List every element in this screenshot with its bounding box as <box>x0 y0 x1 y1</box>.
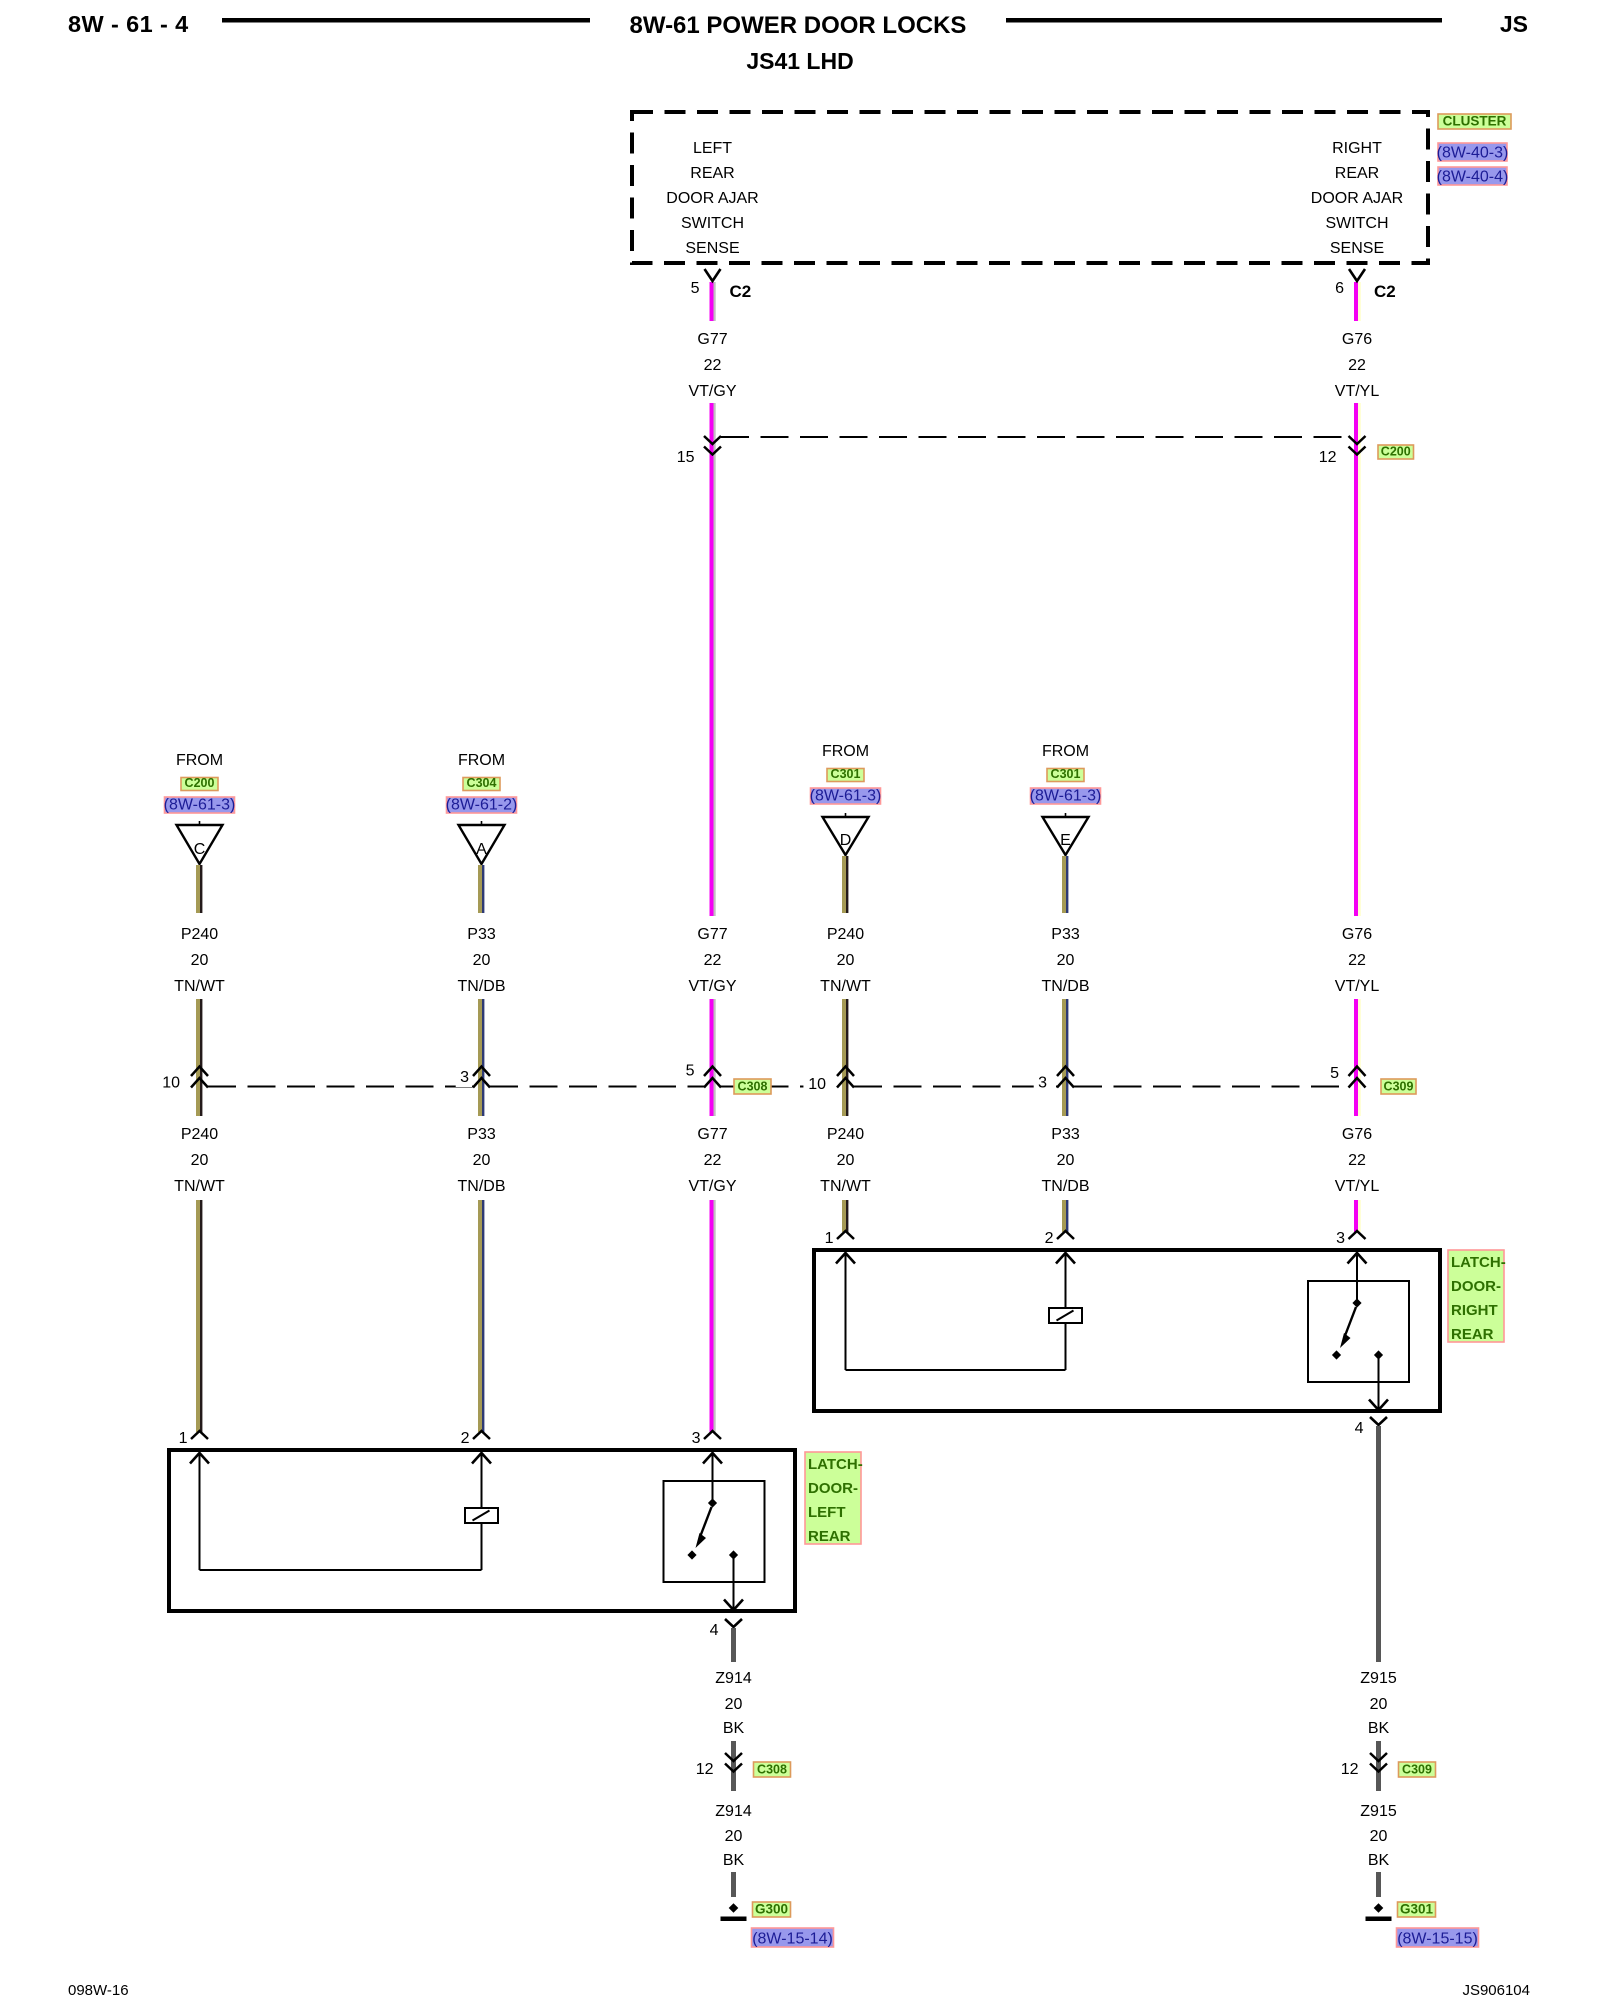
svg-text:C301: C301 <box>831 767 861 781</box>
svg-text:22: 22 <box>704 1152 722 1169</box>
svg-text:G77: G77 <box>697 1126 727 1143</box>
svg-text:VT/YL: VT/YL <box>1335 1178 1380 1195</box>
svg-text:VT/YL: VT/YL <box>1335 383 1380 400</box>
svg-text:P33: P33 <box>467 1126 496 1143</box>
svg-text:P240: P240 <box>181 926 218 943</box>
svg-text:098W-16: 098W-16 <box>68 1982 129 1999</box>
svg-text:P33: P33 <box>467 926 496 943</box>
svg-text:4: 4 <box>1355 1420 1364 1437</box>
svg-text:LEFT: LEFT <box>808 1504 846 1521</box>
svg-text:TN/DB: TN/DB <box>1042 978 1090 995</box>
svg-text:TN/DB: TN/DB <box>458 978 506 995</box>
svg-text:REAR: REAR <box>1335 165 1379 182</box>
svg-text:TN/DB: TN/DB <box>458 1178 506 1195</box>
svg-text:2: 2 <box>461 1430 470 1447</box>
svg-text:VT/GY: VT/GY <box>688 383 736 400</box>
svg-text:(8W-61-3): (8W-61-3) <box>164 797 236 814</box>
svg-text:20: 20 <box>191 1152 209 1169</box>
svg-text:VT/GY: VT/GY <box>688 1178 736 1195</box>
svg-text:BK: BK <box>1368 1720 1390 1737</box>
svg-text:10: 10 <box>162 1075 180 1092</box>
svg-text:JS906104: JS906104 <box>1462 1982 1530 1999</box>
svg-text:FROM: FROM <box>1042 743 1089 760</box>
svg-text:FROM: FROM <box>822 743 869 760</box>
svg-text:22: 22 <box>704 357 722 374</box>
svg-text:C301: C301 <box>1051 767 1081 781</box>
svg-text:TN/WT: TN/WT <box>820 1178 871 1195</box>
svg-text:8W - 61 - 4: 8W - 61 - 4 <box>68 11 189 37</box>
svg-text:C2: C2 <box>730 282 752 301</box>
svg-text:DOOR AJAR: DOOR AJAR <box>666 190 758 207</box>
svg-text:DOOR AJAR: DOOR AJAR <box>1311 190 1403 207</box>
svg-text:VT/GY: VT/GY <box>688 978 736 995</box>
svg-text:1: 1 <box>825 1230 834 1247</box>
svg-text:2: 2 <box>1045 1230 1054 1247</box>
svg-text:20: 20 <box>191 952 209 969</box>
svg-text:JS41 LHD: JS41 LHD <box>746 48 853 74</box>
svg-text:TN/WT: TN/WT <box>820 978 871 995</box>
svg-text:(8W-61-3): (8W-61-3) <box>810 788 882 805</box>
svg-text:Z914: Z914 <box>715 1803 752 1820</box>
svg-text:(8W-40-3): (8W-40-3) <box>1437 145 1509 162</box>
svg-text:20: 20 <box>473 1152 491 1169</box>
svg-text:G300: G300 <box>755 1902 788 1917</box>
svg-text:VT/YL: VT/YL <box>1335 978 1380 995</box>
svg-text:CLUSTER: CLUSTER <box>1443 114 1507 129</box>
svg-text:P240: P240 <box>181 1126 218 1143</box>
svg-text:G76: G76 <box>1342 331 1372 348</box>
svg-text:C200: C200 <box>1381 445 1411 459</box>
svg-text:JS: JS <box>1500 11 1528 37</box>
svg-text:P33: P33 <box>1051 926 1080 943</box>
svg-text:20: 20 <box>1057 952 1075 969</box>
svg-text:(8W-15-14): (8W-15-14) <box>752 1931 833 1948</box>
svg-text:SENSE: SENSE <box>1330 240 1384 257</box>
svg-text:3: 3 <box>460 1069 469 1086</box>
svg-text:22: 22 <box>704 952 722 969</box>
svg-text:12: 12 <box>1319 449 1337 466</box>
svg-text:22: 22 <box>1348 952 1366 969</box>
svg-text:C200: C200 <box>185 776 215 790</box>
svg-text:BK: BK <box>723 1852 745 1869</box>
svg-text:FROM: FROM <box>176 752 223 769</box>
svg-text:RIGHT: RIGHT <box>1451 1302 1498 1319</box>
svg-text:E: E <box>1060 832 1071 849</box>
svg-text:20: 20 <box>837 952 855 969</box>
svg-text:5: 5 <box>1330 1065 1339 1082</box>
svg-text:REAR: REAR <box>690 165 734 182</box>
svg-text:DOOR-: DOOR- <box>1451 1278 1501 1295</box>
svg-text:4: 4 <box>710 1622 719 1639</box>
svg-text:BK: BK <box>1368 1852 1390 1869</box>
svg-text:(8W-40-4): (8W-40-4) <box>1437 169 1509 186</box>
svg-text:10: 10 <box>808 1076 826 1093</box>
svg-text:C309: C309 <box>1402 1763 1432 1777</box>
svg-text:3: 3 <box>1336 1230 1345 1247</box>
svg-text:C308: C308 <box>738 1080 768 1094</box>
svg-text:20: 20 <box>473 952 491 969</box>
svg-text:G76: G76 <box>1342 1126 1372 1143</box>
svg-text:A: A <box>476 841 487 858</box>
svg-text:22: 22 <box>1348 357 1366 374</box>
svg-text:C304: C304 <box>467 776 497 790</box>
svg-text:Z915: Z915 <box>1360 1670 1397 1687</box>
svg-text:P240: P240 <box>827 1126 864 1143</box>
svg-text:(8W-15-15): (8W-15-15) <box>1397 1931 1478 1948</box>
svg-text:12: 12 <box>1341 1761 1359 1778</box>
svg-text:D: D <box>840 832 852 849</box>
svg-text:(8W-61-3): (8W-61-3) <box>1030 788 1102 805</box>
svg-text:TN/WT: TN/WT <box>174 978 225 995</box>
svg-text:3: 3 <box>692 1430 701 1447</box>
svg-text:20: 20 <box>1370 1696 1388 1713</box>
svg-text:G301: G301 <box>1400 1902 1434 1917</box>
svg-text:TN/WT: TN/WT <box>174 1178 225 1195</box>
svg-text:20: 20 <box>1057 1152 1075 1169</box>
svg-text:6: 6 <box>1335 280 1344 297</box>
svg-text:LEFT: LEFT <box>693 140 732 157</box>
svg-text:REAR: REAR <box>1451 1326 1494 1343</box>
svg-text:LATCH-: LATCH- <box>1451 1254 1506 1271</box>
svg-text:DOOR-: DOOR- <box>808 1480 858 1497</box>
svg-text:RIGHT: RIGHT <box>1332 140 1382 157</box>
svg-text:P33: P33 <box>1051 1126 1080 1143</box>
svg-text:SWITCH: SWITCH <box>1325 215 1388 232</box>
svg-text:SWITCH: SWITCH <box>681 215 744 232</box>
svg-text:BK: BK <box>723 1720 745 1737</box>
svg-text:1: 1 <box>179 1430 188 1447</box>
svg-text:REAR: REAR <box>808 1528 851 1545</box>
svg-text:LATCH-: LATCH- <box>808 1456 863 1473</box>
svg-text:22: 22 <box>1348 1152 1366 1169</box>
svg-text:5: 5 <box>686 1063 695 1080</box>
svg-text:12: 12 <box>696 1761 714 1778</box>
svg-text:G77: G77 <box>697 331 727 348</box>
svg-text:TN/DB: TN/DB <box>1042 1178 1090 1195</box>
svg-text:C309: C309 <box>1384 1080 1414 1094</box>
svg-text:Z914: Z914 <box>715 1670 752 1687</box>
svg-text:P240: P240 <box>827 926 864 943</box>
svg-text:20: 20 <box>725 1828 743 1845</box>
svg-text:20: 20 <box>837 1152 855 1169</box>
svg-text:C: C <box>194 841 206 858</box>
svg-text:SENSE: SENSE <box>685 240 739 257</box>
svg-text:C2: C2 <box>1374 282 1396 301</box>
svg-text:5: 5 <box>691 280 700 297</box>
svg-text:C308: C308 <box>757 1763 787 1777</box>
svg-text:G77: G77 <box>697 926 727 943</box>
svg-text:20: 20 <box>1370 1828 1388 1845</box>
svg-text:(8W-61-2): (8W-61-2) <box>446 797 518 814</box>
svg-text:G76: G76 <box>1342 926 1372 943</box>
svg-text:3: 3 <box>1038 1075 1047 1092</box>
svg-text:20: 20 <box>725 1696 743 1713</box>
svg-text:15: 15 <box>677 449 695 466</box>
svg-text:8W-61 POWER DOOR LOCKS: 8W-61 POWER DOOR LOCKS <box>630 12 967 39</box>
svg-text:FROM: FROM <box>458 752 505 769</box>
svg-text:Z915: Z915 <box>1360 1803 1397 1820</box>
